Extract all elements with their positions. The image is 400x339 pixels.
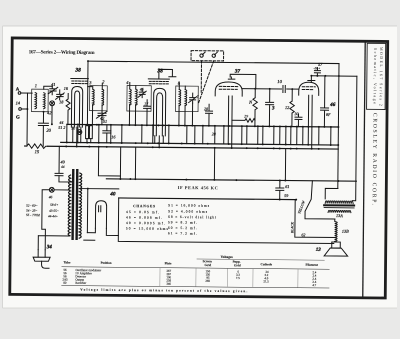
svg-text:Grid: Grid bbox=[234, 263, 241, 267]
wire yellow lead bbox=[295, 200, 336, 238]
svg-text:59 = 8.2 mf.: 59 = 8.2 mf. bbox=[168, 220, 197, 224]
primary feed wires bbox=[38, 190, 70, 250]
antenna coil T1 bbox=[32, 89, 49, 112]
wire heater bus upper bbox=[61, 142, 338, 145]
capacitor 49 bbox=[55, 146, 72, 182]
svg-text:21.5: 21.5 bbox=[263, 279, 269, 283]
svg-text:265: 265 bbox=[205, 279, 210, 283]
svg-text:55 - 770M: 55 - 770M bbox=[26, 213, 40, 217]
tube V4 grid cap lead bbox=[308, 76, 315, 83]
tube V4 electrodes bbox=[308, 95, 312, 127]
mid zone verticals bbox=[120, 147, 285, 181]
left margin power notes bbox=[26, 203, 59, 219]
parts value list bbox=[126, 203, 216, 236]
svg-text:S8 = 6-volt dial light: S8 = 6-volt dial light bbox=[168, 215, 216, 219]
wire antenna lead bbox=[21, 92, 32, 94]
capacitor 3 bbox=[265, 89, 273, 127]
svg-text:Rectifier: Rectifier bbox=[75, 281, 86, 285]
wire chassis bus bbox=[67, 124, 338, 127]
tube V1 heater leads bbox=[73, 127, 81, 147]
capacitor 28 bbox=[205, 104, 212, 126]
tube V3 heater leads bbox=[228, 126, 232, 148]
band switch shield box bbox=[191, 51, 224, 61]
power transformer primary winding bbox=[68, 175, 71, 236]
svg-text:44: 44 bbox=[61, 165, 65, 169]
wire right side drop bbox=[352, 76, 357, 201]
svg-text:Position: Position bbox=[101, 261, 112, 265]
power transformer secondary winding bbox=[79, 173, 82, 238]
svg-text:13B: 13B bbox=[342, 229, 349, 234]
output transformer secondary bbox=[328, 210, 351, 212]
svg-text:45: 45 bbox=[140, 87, 144, 92]
svg-text:38: 38 bbox=[156, 68, 163, 74]
trimmer capacitor 16 bbox=[56, 90, 65, 100]
wires IFT1 bbox=[129, 83, 135, 126]
resistor 51 bbox=[66, 93, 70, 124]
capacitor 46 bbox=[320, 76, 328, 127]
capacitor 30 electrolytic bbox=[295, 114, 302, 127]
svg-text:50: 50 bbox=[71, 126, 75, 130]
tube V2 heater leads bbox=[155, 136, 164, 148]
output transformer core bbox=[324, 204, 354, 206]
model info box top right bbox=[367, 43, 386, 109]
wire tube3 grid cap bracket bbox=[228, 74, 256, 89]
wire tube2 grid cap bracket bbox=[159, 69, 176, 79]
svg-text:41: 41 bbox=[51, 82, 55, 87]
svg-text:8F: 8F bbox=[326, 112, 331, 117]
wires IFT2 bbox=[179, 83, 193, 126]
trimmer capacitor 42b bbox=[96, 111, 107, 125]
shield cap tube2 bbox=[148, 78, 169, 80]
svg-text:30: 30 bbox=[294, 111, 298, 116]
svg-text:Filament: Filament bbox=[306, 263, 319, 267]
capacitor 61 bbox=[276, 180, 284, 199]
tube V4 heater leads bbox=[308, 127, 312, 149]
svg-text:12: 12 bbox=[285, 105, 289, 110]
svg-text:80: 80 bbox=[63, 281, 67, 285]
svg-text:G: G bbox=[16, 115, 20, 120]
svg-text:40: 40 bbox=[109, 191, 116, 197]
svg-text:340: 340 bbox=[166, 282, 171, 286]
dial lamp S8 bbox=[77, 130, 82, 135]
wire coil to tuning cap bbox=[44, 86, 53, 89]
svg-text:CROSLEY RADIO CORP.: CROSLEY RADIO CORP. bbox=[371, 113, 378, 206]
capacitor C10 bbox=[283, 86, 285, 93]
wire top bus bbox=[88, 61, 339, 63]
wire output top bus bbox=[311, 75, 356, 77]
wire heater bus lower bbox=[25, 146, 338, 149]
svg-text:28: 28 bbox=[204, 106, 208, 111]
svg-text:13: 13 bbox=[316, 248, 322, 253]
svg-text:Plate: Plate bbox=[165, 261, 173, 265]
wire speaker return bottom bbox=[118, 198, 334, 244]
svg-text:59: 59 bbox=[284, 193, 288, 198]
svg-text:45 = 0.05 mf.: 45 = 0.05 mf. bbox=[126, 210, 159, 214]
trimmer capacitor 41 bbox=[48, 86, 58, 95]
power transformer T5 core bbox=[71, 169, 74, 240]
capacitor 17 bbox=[143, 100, 150, 126]
wire ground lead bbox=[21, 93, 28, 146]
capacitor 16b bbox=[103, 125, 111, 143]
svg-text:60 = 5.2 mf.: 60 = 5.2 mf. bbox=[168, 226, 197, 230]
capacitor 20 bbox=[38, 112, 48, 147]
capacitor 57 bbox=[314, 68, 320, 76]
svg-text:7.5: 7.5 bbox=[236, 276, 240, 280]
svg-text:10: 10 bbox=[277, 79, 282, 84]
resistor 12 bbox=[290, 89, 295, 127]
trimmer capacitor 45 bbox=[138, 89, 146, 98]
svg-text:58-6+: 58-6+ bbox=[50, 203, 58, 207]
border frame bbox=[10, 38, 388, 298]
AC plug bbox=[38, 250, 45, 258]
svg-text:54 - 25~: 54 - 25~ bbox=[26, 209, 37, 213]
svg-text:34: 34 bbox=[46, 244, 53, 250]
output transformer 13A primary bbox=[325, 201, 353, 204]
wire top bus drop bbox=[338, 64, 339, 189]
IF transformer T3 bbox=[127, 86, 151, 112]
shield cap tube1 bbox=[71, 77, 88, 79]
rectifier wires bbox=[87, 228, 118, 235]
svg-text:3: 3 bbox=[271, 106, 275, 111]
svg-text:61 = 7.2 mf.: 61 = 7.2 mf. bbox=[168, 231, 197, 235]
svg-text:44-44+: 44-44+ bbox=[48, 214, 58, 218]
wire osc coil leads bbox=[87, 83, 102, 125]
wire grid-cap riser tube1 bbox=[87, 61, 89, 78]
svg-text:A: A bbox=[16, 87, 20, 92]
electrolytic block 59 bbox=[86, 126, 89, 139]
resistor 29 bbox=[232, 118, 255, 122]
right column divider bbox=[363, 42, 365, 298]
svg-text:51: 51 bbox=[103, 119, 107, 124]
svg-text:20: 20 bbox=[46, 128, 51, 133]
svg-text:IF PEAK 456 KC: IF PEAK 456 KC bbox=[178, 185, 218, 190]
svg-text:62: 62 bbox=[301, 232, 305, 237]
svg-text:13A: 13A bbox=[336, 213, 343, 218]
svg-text:15: 15 bbox=[35, 149, 40, 154]
on-off switch lamp bbox=[49, 187, 54, 192]
resistor 15 bbox=[27, 144, 48, 149]
svg-text:52 - 60~: 52 - 60~ bbox=[26, 204, 37, 208]
svg-text:38: 38 bbox=[74, 68, 81, 74]
ground terminal G bbox=[19, 108, 22, 111]
antenna terminal A bbox=[18, 92, 21, 95]
svg-text:37: 37 bbox=[234, 69, 241, 75]
svg-text:CHANGES: CHANGES bbox=[133, 204, 155, 208]
rectifier tube 80 bbox=[95, 201, 106, 229]
bus-to-heater verticals bbox=[67, 78, 332, 145]
speaker magnet bbox=[332, 242, 341, 248]
gang condenser section symbol bbox=[50, 101, 55, 106]
tube V1 56 oscillator-modulator bbox=[71, 86, 82, 127]
wire B+ lower bus bbox=[119, 198, 295, 200]
svg-text:4.7: 4.7 bbox=[312, 283, 316, 287]
speaker cone bbox=[324, 248, 348, 256]
tube V3 56 detector bbox=[215, 82, 242, 96]
wire plate coupling line bbox=[242, 88, 298, 91]
wire OPT primary left bbox=[325, 188, 338, 199]
svg-text:61: 61 bbox=[285, 184, 289, 189]
wire IF bus bbox=[106, 179, 356, 181]
svg-text:Voltages: Voltages bbox=[221, 255, 234, 259]
svg-text:46: 46 bbox=[329, 102, 336, 108]
svg-text:1: 1 bbox=[35, 83, 37, 88]
tube V4 2A5 output bbox=[299, 82, 319, 95]
svg-text:-50+: -50+ bbox=[313, 66, 320, 70]
HV secondary to bus bbox=[80, 147, 121, 241]
svg-text:Cathode: Cathode bbox=[261, 262, 273, 266]
svg-text:43-55~: 43-55~ bbox=[49, 209, 59, 213]
svg-text:Grid: Grid bbox=[205, 263, 212, 267]
svg-text:46: 46 bbox=[49, 195, 53, 199]
svg-text:49 = 0.0005 mf.: 49 = 0.0005 mf. bbox=[126, 221, 165, 225]
svg-text:167—Series 2—Wiring Diagram: 167—Series 2—Wiring Diagram bbox=[29, 49, 96, 56]
tube V3 electrodes bbox=[228, 96, 232, 127]
tube voltage table bbox=[62, 253, 330, 269]
resistor N bbox=[253, 89, 258, 127]
trimmer capacitor 7 bbox=[189, 93, 197, 103]
svg-text:46 = 0.008 mf.: 46 = 0.008 mf. bbox=[126, 216, 162, 220]
svg-text:51 2: 51 2 bbox=[58, 125, 65, 130]
IF transformer T4 bbox=[176, 86, 199, 112]
tube V2 56 IF amplifier bbox=[153, 88, 165, 136]
svg-text:MODEL 167 Series 2: MODEL 167 Series 2 bbox=[379, 47, 385, 106]
svg-text:BLACK: BLACK bbox=[290, 221, 294, 233]
oscillator coil T2 bbox=[90, 86, 108, 111]
dashed linkage bbox=[200, 61, 202, 92]
speaker field coil 13B bbox=[335, 219, 338, 242]
svg-text:Tube: Tube bbox=[64, 260, 71, 264]
